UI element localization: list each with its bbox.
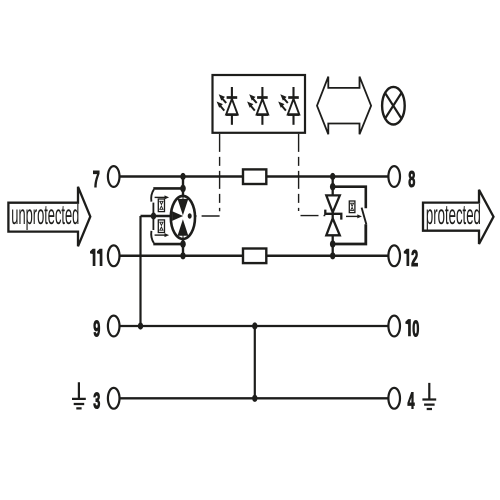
pin label 12 (404, 249, 409, 266)
wire GDT top vertical (182, 177, 184, 202)
actuation arrow upper left (155, 196, 166, 198)
terminal 9 (108, 316, 120, 337)
thermal fuse lower left (158, 220, 164, 233)
svg-text:8: 8 (408, 167, 415, 193)
wire line 11 to resistor R2 (120, 255, 244, 258)
gas discharge tube F1 bottom electrode (178, 221, 187, 239)
switch blade bottom left disconnect (151, 231, 154, 243)
TVS diode U2 center bars (325, 210, 341, 220)
terminal 4 (388, 388, 400, 409)
wire resistor R2 to terminal 12 (266, 255, 387, 258)
ground symbol right (422, 383, 436, 409)
node on line 3 center tap (252, 395, 257, 402)
thermal fuse upper left (158, 199, 164, 212)
node GDT top bracket (180, 185, 186, 193)
node on line 11 at TVS (330, 252, 335, 259)
dashed status link right (299, 134, 326, 216)
protected side arrow (423, 190, 494, 244)
node TVS loop top (330, 183, 336, 191)
switch fixed stub top left (152, 203, 154, 215)
LED D1 (217, 87, 238, 125)
wire GDT center to ground vertical (139, 216, 141, 326)
svg-text:protected: protected (426, 199, 481, 230)
node GDT bottom bracket (180, 240, 186, 248)
resistor R2 (243, 249, 266, 264)
gas discharge tube F1 top electrode (178, 196, 187, 214)
wire resistor R1 to terminal 8 (266, 175, 388, 178)
terminal 7 (108, 166, 120, 187)
unprotected side arrow (8, 187, 90, 247)
wire GDT center electrode horizontal (141, 215, 173, 218)
wire line 7 to resistor R1 (120, 175, 244, 178)
node on line 9 center tap (252, 322, 257, 329)
dashed status link left (196, 134, 220, 216)
node on line 7 at TVS (330, 173, 335, 180)
wire TVS vertical (332, 177, 334, 256)
svg-text:2: 2 (411, 246, 418, 272)
thermal fuse right (349, 201, 355, 213)
svg-text:0: 0 (412, 317, 419, 343)
wire GDT bottom vertical (182, 235, 184, 256)
wire TVS disconnect loop top (333, 187, 366, 209)
terminal 11 (108, 245, 120, 266)
wire center tap vertical between line 9 and line 3 (254, 326, 256, 398)
TVS diode U2 bottom triangle (326, 218, 340, 235)
gas discharge tube F1 monitor electrode dot (188, 213, 192, 218)
gas discharge tube F1 left electrode arrowhead (173, 212, 182, 220)
equivalence double arrow (317, 77, 371, 135)
pin label 11 (90, 249, 95, 266)
switch blade top left disconnect (151, 189, 154, 201)
svg-text:3: 3 (93, 389, 100, 415)
svg-text:9: 9 (93, 316, 100, 342)
wire line 9 to 10 (120, 325, 388, 327)
switch blade right disconnect (362, 208, 367, 225)
node TVS loop bottom (330, 240, 336, 248)
wire line 3 to 4 (121, 397, 389, 399)
TVS diode U2 top triangle (326, 195, 340, 212)
svg-text:unprotected: unprotected (11, 199, 79, 230)
wire bracket bottom left of GDT (153, 243, 183, 246)
terminal 8 (388, 166, 400, 187)
wire TVS disconnect loop bottom (333, 224, 366, 244)
LED D2 (247, 87, 268, 125)
node on line 7 at GDT (180, 173, 185, 180)
actuation arrow right (346, 215, 358, 217)
terminal 12 (388, 245, 400, 266)
pin label 10 (405, 319, 410, 336)
ground symbol left (72, 382, 86, 408)
svg-text:7: 7 (93, 167, 100, 193)
status LED box (213, 75, 306, 133)
wire bracket top left of GDT (153, 187, 183, 190)
indicator lamp symbol (382, 87, 405, 125)
actuation arrow lower left (155, 234, 166, 236)
node on line 9 at ground drop (138, 322, 143, 329)
terminal 10 (388, 316, 400, 337)
resistor R1 (243, 169, 266, 184)
svg-text:4: 4 (407, 389, 414, 415)
gas discharge tube F1 envelope (171, 196, 195, 239)
terminal 3 (108, 388, 120, 409)
LED D3 (278, 87, 299, 125)
switch fixed stub bottom left (152, 218, 154, 230)
node on line 11 at GDT (180, 252, 185, 259)
node GDT center electrode (151, 212, 156, 219)
